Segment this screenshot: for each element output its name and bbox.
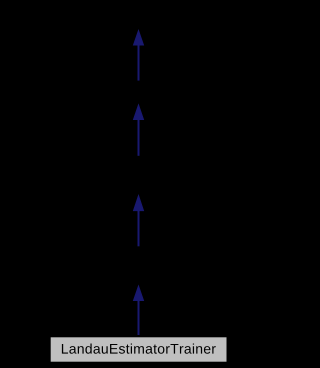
node LandauEstimatorTrainer (grey box): [51, 337, 227, 361]
inheritance arrow 4 (bottom): [134, 286, 144, 335]
inheritance arrow 3: [134, 196, 144, 247]
inheritance arrow 2: [134, 105, 144, 156]
inheritance arrow 1 (topmost): [134, 31, 144, 81]
node label LandauEstimatorTrainer: [62, 343, 216, 353]
